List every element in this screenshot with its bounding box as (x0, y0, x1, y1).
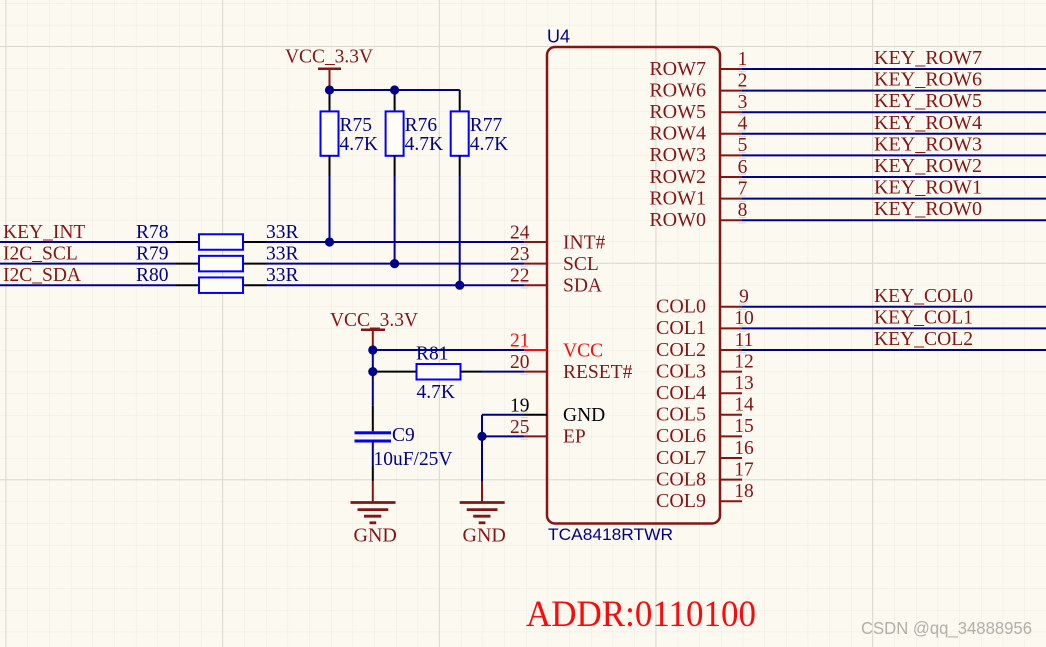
svg-text:KEY_ROW5: KEY_ROW5 (874, 91, 982, 112)
pin number 2 (738, 70, 748, 91)
resistor R81 left lead (373, 371, 417, 373)
pin 19 GND stub (524, 414, 547, 416)
wire R77 to bus (459, 176, 461, 285)
pin 17 COL8 stub (720, 479, 742, 481)
svg-text:33R: 33R (266, 244, 299, 265)
svg-text:KEY_COL0: KEY_COL0 (874, 286, 973, 307)
ground GND right (460, 481, 505, 523)
pin 25 EP stub (524, 435, 547, 437)
wire KEY_ROW0 (742, 219, 1046, 221)
svg-text:GND: GND (563, 405, 605, 426)
pin name ROW7 (649, 58, 706, 80)
resistor R80 body (199, 277, 243, 293)
svg-text:R77: R77 (470, 115, 503, 136)
resistor R81 right lead (461, 371, 483, 373)
svg-text:22: 22 (510, 266, 530, 287)
resistor R75 body (321, 111, 339, 155)
net label KEY_COL2 (874, 329, 973, 350)
pin name COL7 (656, 447, 706, 469)
net label KEY_ROW2 (874, 156, 982, 177)
svg-text:ROW2: ROW2 (649, 166, 706, 188)
pin name COL0 (656, 296, 706, 318)
svg-text:ROW7: ROW7 (649, 58, 706, 80)
net label I2C_SDA (3, 265, 81, 286)
value 33R (266, 244, 299, 265)
svg-text:KEY_ROW4: KEY_ROW4 (874, 113, 982, 134)
pin name COL2 (656, 339, 706, 361)
designator R75 (340, 115, 373, 136)
IC U4 TCA8418RTWR body (547, 47, 720, 524)
svg-text:COL7: COL7 (656, 447, 706, 469)
svg-text:4.7K: 4.7K (417, 382, 455, 403)
part number TCA8418RTWR (548, 525, 673, 544)
svg-text:R76: R76 (405, 115, 438, 136)
junction dot bus/R76 (390, 85, 399, 94)
pin 20 RESET# stub (524, 371, 547, 373)
wire R76 to bus (394, 176, 396, 264)
junction dot R77/I2C_SDA (455, 281, 464, 290)
net label KEY_ROW0 (874, 199, 982, 220)
pin 10 COL1 stub (720, 327, 742, 329)
svg-text:COL6: COL6 (656, 425, 706, 447)
wire KEY_ROW6 (742, 90, 1046, 92)
resistor R76 body (386, 111, 404, 155)
wire KEY_ROW3 (742, 154, 1046, 156)
pin number 24 (510, 223, 530, 244)
svg-text:24: 24 (510, 223, 530, 244)
pin number 18 (734, 481, 754, 502)
net label KEY_COL1 (874, 307, 973, 328)
svg-text:COL3: COL3 (656, 360, 706, 382)
svg-text:KEY_ROW1: KEY_ROW1 (874, 178, 982, 199)
resistor R75 top lead (329, 90, 331, 111)
pin number 12 (734, 351, 754, 372)
value 10uF/25V (374, 449, 453, 470)
wire KEY_INT right (266, 241, 524, 243)
resistor R78 body (199, 234, 243, 250)
resistor R81 body (417, 364, 461, 380)
net label KEY_COL0 (874, 286, 973, 307)
pin name EP (563, 427, 586, 448)
pin number 3 (738, 92, 748, 113)
svg-text:33R: 33R (266, 265, 299, 286)
svg-text:I2C_SCL: I2C_SCL (3, 244, 78, 265)
net label KEY_ROW5 (874, 91, 982, 112)
pin 8 ROW0 stub (720, 219, 742, 221)
svg-text:KEY_COL1: KEY_COL1 (874, 307, 973, 328)
svg-text:14: 14 (734, 395, 754, 416)
resistor R75 bottom lead (329, 156, 331, 176)
wire R75 to bus (329, 176, 331, 242)
value 4.7K (470, 134, 508, 155)
svg-text:1: 1 (738, 49, 748, 70)
designator R76 (405, 115, 438, 136)
wire pin25 (482, 435, 524, 437)
svg-text:RESET#: RESET# (563, 362, 633, 383)
junction dot EP (477, 432, 486, 441)
svg-text:EP: EP (563, 427, 586, 448)
pin number 1 (738, 49, 748, 70)
label GND right (463, 525, 506, 547)
svg-text:ROW1: ROW1 (649, 187, 706, 209)
resistor R79 leads (176, 263, 266, 265)
svg-text:4.7K: 4.7K (405, 134, 443, 155)
wire VCC top bus (330, 89, 460, 91)
pin number 23 (510, 244, 530, 265)
svg-text:20: 20 (510, 352, 530, 373)
designator R81 (416, 344, 449, 365)
wire VCC vertical (372, 350, 374, 372)
watermark CSDN (861, 618, 1032, 639)
svg-text:12: 12 (734, 351, 754, 372)
pin 5 ROW3 stub (720, 154, 742, 156)
capacitor C9 bottom lead (372, 443, 374, 467)
pin number 11 (735, 330, 754, 351)
svg-text:10: 10 (734, 308, 754, 329)
pin 7 ROW1 stub (720, 198, 742, 200)
value 33R (266, 265, 299, 286)
pin 3 ROW5 stub (720, 111, 742, 113)
pin number 16 (734, 438, 754, 459)
pin number 13 (734, 373, 754, 394)
svg-text:KEY_ROW6: KEY_ROW6 (874, 70, 982, 91)
resistor R77 top lead (459, 90, 461, 111)
svg-text:GND: GND (463, 525, 506, 547)
svg-text:19: 19 (510, 395, 530, 416)
designator R77 (470, 115, 503, 136)
junction dot R81/C9 (368, 367, 377, 376)
wire KEY_INT left (0, 241, 176, 243)
pin 2 ROW6 stub (720, 90, 742, 92)
wire pin19 (482, 414, 524, 416)
svg-text:25: 25 (510, 417, 530, 438)
pin name ROW0 (649, 209, 706, 231)
net label I2C_SCL (3, 244, 78, 265)
wire KEY_ROW2 (742, 176, 1046, 178)
pin 12 COL3 stub (720, 371, 742, 373)
svg-text:KEY_ROW3: KEY_ROW3 (874, 134, 982, 155)
wire C9 to GND (372, 466, 374, 481)
pin name VCC (563, 340, 603, 361)
svg-text:COL0: COL0 (656, 296, 706, 318)
net label KEY_INT (3, 222, 85, 243)
pin 22 SDA stub (524, 284, 547, 286)
pin number 17 (734, 459, 754, 480)
svg-text:VCC_3.3V: VCC_3.3V (285, 47, 373, 68)
pin number 6 (738, 157, 748, 178)
pin number 5 (738, 135, 748, 156)
capacitor C9 plates (355, 431, 392, 442)
junction dot R75/KEY_INT (325, 237, 334, 246)
pin 9 COL0 stub (720, 306, 742, 308)
wire KEY_ROW4 (742, 133, 1046, 135)
svg-text:INT#: INT# (563, 232, 605, 253)
svg-text:R80: R80 (136, 265, 169, 286)
svg-text:4.7K: 4.7K (340, 134, 378, 155)
pin 1 ROW7 stub (720, 68, 742, 70)
svg-text:COL4: COL4 (656, 382, 706, 404)
pin 23 SCL stub (524, 263, 547, 265)
svg-text:5: 5 (738, 135, 748, 156)
svg-text:9: 9 (739, 287, 749, 308)
ground GND left (351, 481, 396, 523)
svg-text:33R: 33R (266, 222, 299, 243)
svg-text:ROW6: ROW6 (649, 79, 706, 101)
pin number 20 (510, 352, 530, 373)
svg-text:ADDR:0110100: ADDR:0110100 (526, 594, 756, 635)
svg-text:C9: C9 (392, 425, 415, 446)
svg-text:16: 16 (734, 438, 754, 459)
label ADDR:0110100 (526, 594, 756, 635)
svg-text:15: 15 (734, 416, 754, 437)
svg-text:6: 6 (738, 157, 748, 178)
svg-text:ROW0: ROW0 (649, 209, 706, 231)
svg-text:11: 11 (735, 330, 754, 351)
pin name ROW4 (649, 123, 706, 145)
net label KEY_ROW7 (874, 48, 982, 69)
svg-text:CSDN @qq_34888956: CSDN @qq_34888956 (861, 618, 1032, 639)
svg-text:ROW5: ROW5 (649, 101, 706, 123)
pin number 15 (734, 416, 754, 437)
svg-text:R79: R79 (136, 244, 169, 265)
wire I2C_SCL right (266, 263, 524, 265)
junction dot R76/I2C_SCL (390, 259, 399, 268)
svg-text:VCC_3.3V: VCC_3.3V (330, 310, 418, 331)
svg-text:R81: R81 (416, 344, 449, 365)
wire VCC down to C9 (372, 372, 374, 406)
resistor R77 body (451, 111, 469, 155)
svg-text:COL5: COL5 (656, 404, 706, 426)
pin number 10 (734, 308, 754, 329)
wire I2C_SDA right (266, 284, 524, 286)
net label KEY_ROW4 (874, 113, 982, 134)
designator R79 (136, 244, 169, 265)
pin name GND (563, 405, 605, 426)
resistor R77 bottom lead (459, 156, 461, 176)
svg-text:KEY_INT: KEY_INT (3, 222, 85, 243)
pin number 21 (510, 331, 530, 352)
capacitor C9 top lead (372, 406, 374, 432)
designator U4 (547, 27, 570, 47)
pin 11 COL2 stub (720, 349, 742, 351)
svg-text:10uF/25V: 10uF/25V (374, 449, 453, 470)
svg-text:VCC: VCC (563, 340, 603, 361)
pin name COL3 (656, 360, 706, 382)
wire KEY_COL0 (742, 306, 1046, 308)
pin 16 COL7 stub (720, 457, 742, 459)
svg-text:COL2: COL2 (656, 339, 706, 361)
wire VCC to pin21 (373, 349, 524, 351)
pin name COL5 (656, 404, 706, 426)
svg-text:R78: R78 (136, 222, 169, 243)
pin hotspot markers (521, 66, 746, 439)
wire KEY_ROW1 (742, 198, 1046, 200)
pin 15 COL6 stub (720, 435, 742, 437)
pin number 14 (734, 395, 754, 416)
pin name SDA (563, 276, 602, 297)
resistor R78 leads (176, 241, 266, 243)
junction dot VCC/R75 (325, 85, 334, 94)
designator R78 (136, 222, 169, 243)
power VCC_3.3V top (285, 47, 373, 91)
wire KEY_COL1 (742, 327, 1046, 329)
resistor R76 bottom lead (394, 156, 396, 176)
pin number 19 (510, 395, 530, 416)
value 4.7K (405, 134, 443, 155)
svg-text:U4: U4 (547, 27, 570, 47)
pin name ROW6 (649, 79, 706, 101)
net label KEY_ROW6 (874, 70, 982, 91)
junction dot VCC pin21 (368, 345, 377, 354)
pin name COL4 (656, 382, 706, 404)
pin name ROW1 (649, 187, 706, 209)
pin 14 COL5 stub (720, 414, 742, 416)
resistor R76 top lead (394, 90, 396, 111)
svg-text:4: 4 (738, 114, 748, 135)
pin name ROW5 (649, 101, 706, 123)
pin 6 ROW2 stub (720, 176, 742, 178)
wire R81 to pin20 (482, 371, 524, 373)
svg-text:KEY_COL2: KEY_COL2 (874, 329, 973, 350)
wire KEY_ROW7 (742, 68, 1046, 70)
svg-text:4.7K: 4.7K (470, 134, 508, 155)
value 33R (266, 222, 299, 243)
svg-text:18: 18 (734, 481, 754, 502)
wire I2C_SDA left (0, 284, 176, 286)
pin number 25 (510, 417, 530, 438)
pin name INT# (563, 232, 605, 253)
pin number 9 (739, 287, 749, 308)
pin name ROW3 (649, 144, 706, 166)
pin number 22 (510, 266, 530, 287)
svg-text:ROW4: ROW4 (649, 123, 706, 145)
pin name SCL (563, 254, 599, 275)
svg-text:SDA: SDA (563, 276, 602, 297)
svg-text:7: 7 (738, 178, 748, 199)
pin 13 COL4 stub (720, 392, 742, 394)
value 4.7K (417, 382, 455, 403)
pin name RESET# (563, 362, 633, 383)
pin name COL9 (656, 490, 706, 512)
pin name ROW2 (649, 166, 706, 188)
pin 18 COL9 stub (720, 500, 742, 502)
wire I2C_SCL left (0, 263, 176, 265)
pin 21 VCC stub (524, 349, 547, 351)
svg-text:KEY_ROW0: KEY_ROW0 (874, 199, 982, 220)
pin number 7 (738, 178, 748, 199)
power VCC_3.3V bottom (330, 310, 418, 350)
svg-text:SCL: SCL (563, 254, 599, 275)
resistor R79 body (199, 256, 243, 272)
pin name COL6 (656, 425, 706, 447)
svg-text:COL1: COL1 (656, 317, 706, 339)
svg-text:KEY_ROW7: KEY_ROW7 (874, 48, 982, 69)
pin 24 INT# stub (524, 241, 547, 243)
resistor R80 leads (176, 284, 266, 286)
svg-text:GND: GND (354, 525, 397, 547)
svg-text:23: 23 (510, 244, 530, 265)
svg-text:ROW3: ROW3 (649, 144, 706, 166)
pin 4 ROW4 stub (720, 133, 742, 135)
pin name COL1 (656, 317, 706, 339)
wire KEY_COL2 (742, 349, 1046, 351)
pin name COL8 (656, 468, 706, 490)
svg-text:2: 2 (738, 70, 748, 91)
svg-text:TCA8418RTWR: TCA8418RTWR (548, 525, 673, 544)
svg-text:3: 3 (738, 92, 748, 113)
label GND left (354, 525, 397, 547)
net label KEY_ROW1 (874, 178, 982, 199)
svg-text:21: 21 (510, 331, 530, 352)
svg-text:COL8: COL8 (656, 468, 706, 490)
pin number 8 (738, 200, 748, 221)
svg-text:I2C_SDA: I2C_SDA (3, 265, 81, 286)
svg-text:R75: R75 (340, 115, 373, 136)
net label KEY_ROW3 (874, 134, 982, 155)
svg-text:8: 8 (738, 200, 748, 221)
svg-text:KEY_ROW2: KEY_ROW2 (874, 156, 982, 177)
wire KEY_ROW5 (742, 111, 1046, 113)
svg-text:17: 17 (734, 459, 754, 480)
pin number 4 (738, 114, 748, 135)
designator R80 (136, 265, 169, 286)
designator C9 (392, 425, 415, 446)
value 4.7K (340, 134, 378, 155)
svg-text:COL9: COL9 (656, 490, 706, 512)
svg-text:13: 13 (734, 373, 754, 394)
wire EP vertical (481, 415, 483, 481)
